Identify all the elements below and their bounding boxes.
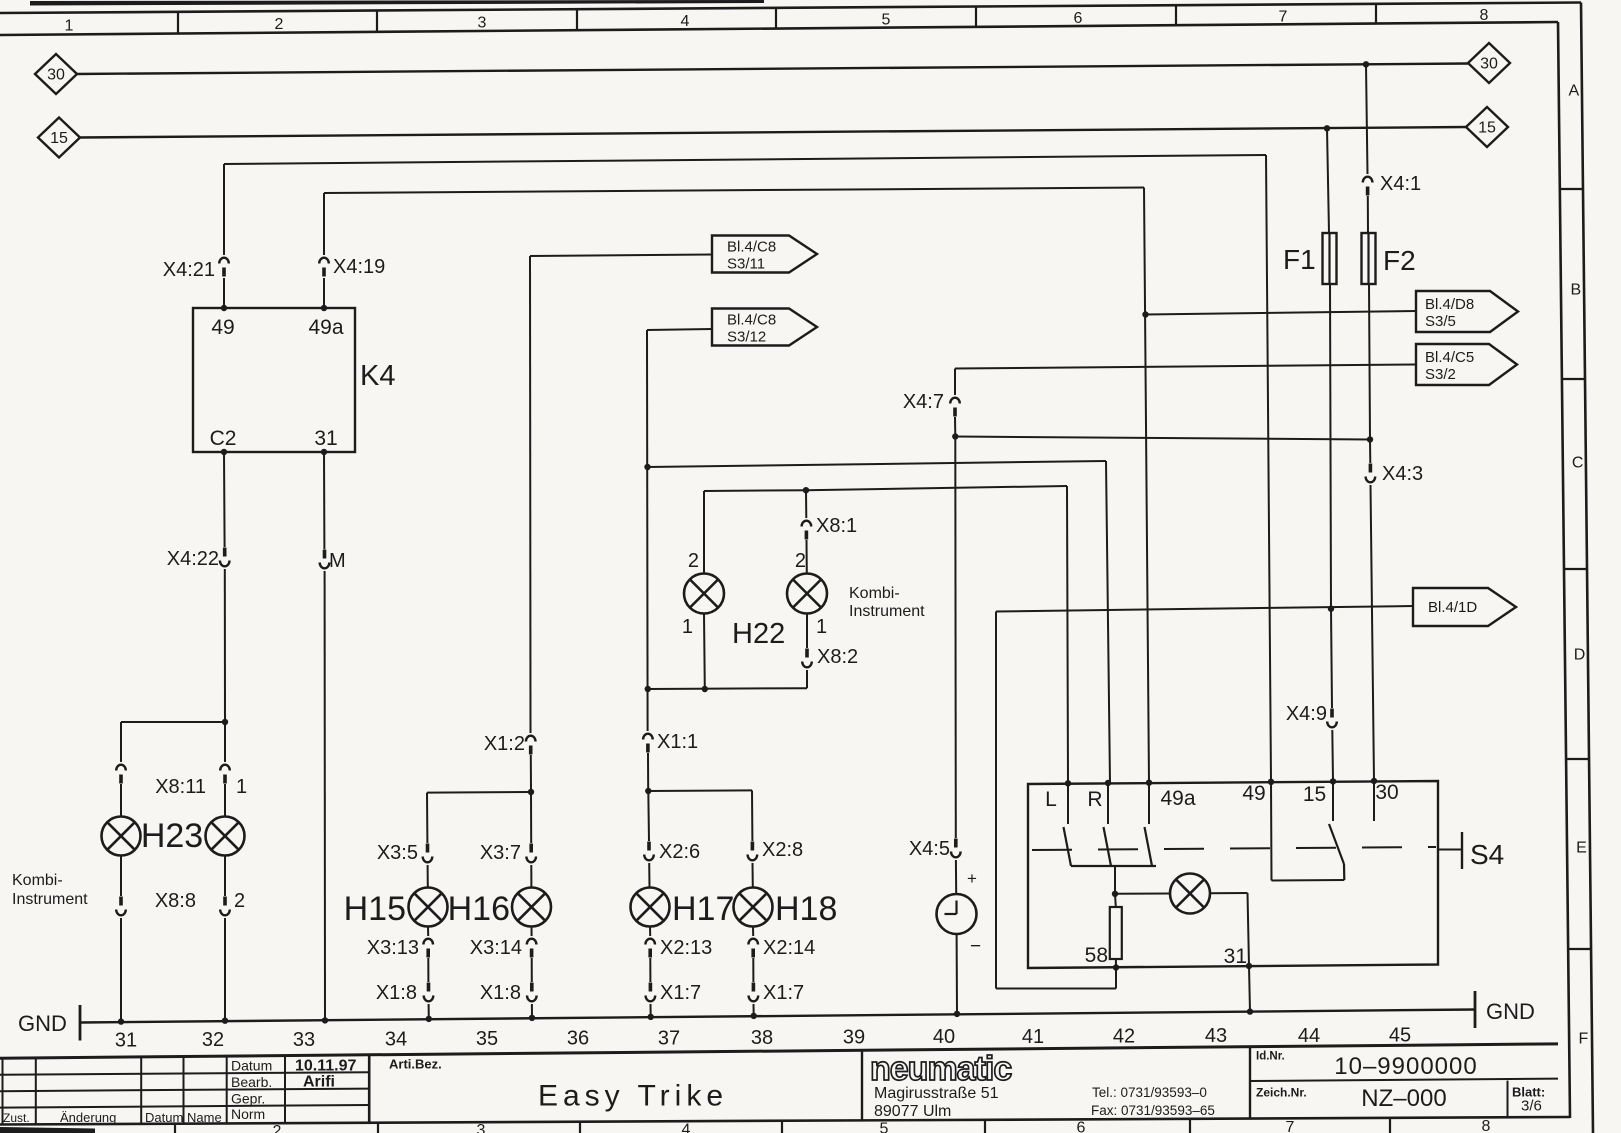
connector X8:11 bbox=[116, 765, 126, 771]
svg-text:E: E bbox=[1576, 840, 1587, 857]
fuse F2 bbox=[1367, 233, 1369, 284]
ground rail GND right terminal bbox=[1474, 991, 1477, 1028]
svg-text:X1:1: X1:1 bbox=[657, 731, 698, 753]
wire X8:2 to bottom rail bbox=[806, 670, 808, 688]
connector X4:1 bbox=[1363, 177, 1373, 183]
svg-text:3: 3 bbox=[478, 15, 487, 32]
svg-text:F: F bbox=[1578, 1031, 1588, 1048]
svg-text:X2:13: X2:13 bbox=[660, 937, 712, 959]
svg-text:1: 1 bbox=[65, 18, 74, 35]
border frame bottom ruler band bbox=[0, 1117, 1570, 1125]
svg-text:2: 2 bbox=[234, 890, 245, 912]
svg-text:X4:21: X4:21 bbox=[163, 259, 215, 281]
svg-text:Instrument: Instrument bbox=[849, 603, 925, 620]
junction S4 pin 31 bbox=[1246, 963, 1252, 969]
lamp H16 bbox=[512, 888, 551, 927]
svg-text:X3:14: X3:14 bbox=[470, 937, 522, 959]
svg-text:2: 2 bbox=[273, 1123, 282, 1133]
connector X3:14 bbox=[527, 939, 537, 945]
connector X3:5 bbox=[426, 844, 430, 853]
net 30 destination diamond (right) bbox=[1468, 43, 1510, 83]
wire X1:1 to split bbox=[647, 753, 649, 791]
border frame top ruler band bbox=[0, 3, 1581, 14]
lamp H15 bbox=[409, 888, 448, 927]
wire H22 bottom rail bbox=[648, 687, 807, 690]
connector X8:8 bbox=[119, 897, 123, 906]
junction X4:7 / W3 bbox=[952, 433, 958, 439]
svg-text:X3:13: X3:13 bbox=[367, 937, 419, 959]
lamp S4 indicator bbox=[1170, 874, 1210, 914]
svg-text:6: 6 bbox=[1074, 10, 1083, 27]
wire K4-31 down (M line) bbox=[323, 452, 325, 549]
svg-text:C2: C2 bbox=[210, 427, 237, 450]
svg-text:Bl.4/C5: Bl.4/C5 bbox=[1425, 349, 1474, 366]
wire 30-bus to X4:1 bbox=[1366, 64, 1368, 174]
junction X1:1/W4 tap bbox=[644, 464, 650, 470]
svg-text:Arifi: Arifi bbox=[303, 1074, 335, 1091]
svg-text:Bl.4/C8: Bl.4/C8 bbox=[727, 312, 776, 329]
S4 contact blade L bbox=[1064, 827, 1072, 866]
svg-text:89077 Ulm: 89077 Ulm bbox=[874, 1103, 951, 1120]
net 15 destination diamond (right) bbox=[1466, 107, 1508, 147]
ground rail bbox=[80, 1010, 1475, 1023]
connector X2:14 bbox=[748, 939, 758, 945]
connector X2:6 bbox=[647, 842, 651, 851]
lamp H18 bbox=[734, 888, 773, 927]
junction F1 line / Bl.4-1D wire bbox=[1328, 606, 1334, 612]
wire H16 branch upper bbox=[530, 792, 532, 843]
wire X8:1 drop bbox=[805, 490, 807, 518]
svg-text:34: 34 bbox=[385, 1028, 407, 1050]
lamp H22 right bbox=[787, 574, 827, 614]
wire H18 to X2:14 bbox=[752, 927, 754, 937]
svg-text:Datum: Datum bbox=[231, 1058, 272, 1074]
svg-text:X8:2: X8:2 bbox=[817, 646, 858, 668]
svg-text:Änderung: Änderung bbox=[60, 1110, 116, 1125]
svg-text:Bl.4/C8: Bl.4/C8 bbox=[727, 239, 776, 256]
svg-text:H18: H18 bbox=[775, 890, 837, 928]
junction H17 at ground rail bbox=[648, 1014, 654, 1020]
wire X1:7 to ground rail (H18) bbox=[753, 1004, 755, 1016]
svg-text:D: D bbox=[1574, 647, 1586, 664]
scan edge artifact top bbox=[30, 0, 764, 6]
svg-text:X1:8: X1:8 bbox=[480, 982, 521, 1004]
svg-text:X1:7: X1:7 bbox=[763, 982, 804, 1004]
wire net-15 bus bbox=[79, 127, 1466, 138]
svg-text:1: 1 bbox=[816, 616, 827, 638]
connector X2:13 bbox=[645, 939, 655, 945]
svg-text:7: 7 bbox=[1279, 9, 1288, 26]
svg-text:10.11.97: 10.11.97 bbox=[295, 1058, 357, 1075]
wire S4 common to lamp junction bbox=[1114, 866, 1116, 894]
net 15 source diamond (left) bbox=[38, 118, 80, 158]
svg-text:15: 15 bbox=[50, 130, 68, 147]
wire X2:8 to lamp H18 bbox=[752, 863, 754, 888]
title id row divider bbox=[1250, 1079, 1558, 1081]
svg-text:31: 31 bbox=[1224, 945, 1247, 968]
wire X1:2 to split bbox=[530, 755, 532, 792]
net 30 source diamond (left) bbox=[35, 54, 77, 94]
svg-text:F2: F2 bbox=[1383, 245, 1416, 276]
connector X1:8 (H15) bbox=[427, 983, 431, 992]
wire H23 left branch upper bbox=[120, 722, 122, 762]
junction net-30 / F2 feed bbox=[1363, 61, 1369, 67]
junction S4-31 at ground rail bbox=[1247, 1008, 1253, 1014]
junction S4 terminal R bbox=[1105, 780, 1111, 786]
svg-text:49: 49 bbox=[1242, 782, 1265, 805]
lamp H23 right bbox=[206, 817, 245, 856]
svg-text:X1:8: X1:8 bbox=[376, 982, 417, 1004]
wire X2:14 to X1:7 bbox=[752, 958, 754, 982]
svg-text:Instrument: Instrument bbox=[12, 891, 88, 908]
wire X2:6 to lamp H17 bbox=[648, 863, 650, 888]
connector X3:13 bbox=[423, 939, 433, 945]
connector X1:7 (H17) bbox=[649, 983, 653, 992]
wire X3:5 to lamp H15 bbox=[427, 865, 429, 888]
scan edge artifact bottom left bbox=[0, 1127, 95, 1133]
title blatt divider bbox=[1507, 1081, 1509, 1118]
svg-text:X2:6: X2:6 bbox=[659, 841, 700, 863]
wire W4 (X1:1 tap to S4 R) bbox=[648, 461, 1107, 467]
switch S4 box bbox=[1028, 781, 1438, 968]
wire H22 top rail / W5 start bbox=[704, 489, 806, 492]
wire K4-C2 down bbox=[223, 452, 226, 547]
svg-text:X1:2: X1:2 bbox=[484, 733, 525, 755]
wire H23 top link bbox=[121, 721, 225, 723]
wire H18 branch upper bbox=[751, 790, 753, 841]
junction M line at ground rail bbox=[322, 1017, 328, 1023]
S4 actuator tick bbox=[1461, 832, 1463, 869]
wire X3:7 to lamp H16 bbox=[530, 865, 532, 888]
svg-text:5: 5 bbox=[882, 12, 891, 29]
svg-text:30: 30 bbox=[1375, 781, 1398, 804]
svg-text:GND: GND bbox=[18, 1011, 67, 1036]
wire flag S3/2 to X4:7 corner bbox=[955, 365, 1416, 369]
svg-text:2: 2 bbox=[275, 16, 284, 33]
flag Bl.4/C8 S3/11 bbox=[712, 236, 817, 273]
junction K4 pin 49 bbox=[221, 305, 227, 311]
svg-text:1: 1 bbox=[236, 776, 247, 798]
wire H16 to X3:14 bbox=[531, 927, 533, 937]
junction W2 to flag S3/5 bbox=[1142, 311, 1148, 317]
junction H17/H18 split bbox=[645, 788, 651, 794]
junction S4 terminal 49a bbox=[1146, 780, 1152, 786]
svg-text:37: 37 bbox=[658, 1027, 680, 1049]
junction S4 terminal 30 bbox=[1371, 778, 1377, 784]
wire X4:1 to F2 bbox=[1367, 196, 1369, 233]
wire pin2 to ground rail bbox=[224, 918, 226, 1021]
wire W1 across row A (X4:21 to S4 49) bbox=[224, 155, 1266, 164]
title block neumatic divider bbox=[861, 1050, 863, 1120]
svg-text:30: 30 bbox=[1480, 56, 1498, 73]
connector H23 pin 2 bbox=[223, 897, 227, 906]
S4 pole stub 49a bbox=[1148, 783, 1150, 824]
wire net-30 bus bbox=[76, 64, 1468, 75]
flag Bl.4/D8 S3/5 bbox=[1416, 291, 1518, 332]
svg-text:43: 43 bbox=[1205, 1025, 1227, 1047]
svg-text:Bl.4/1D: Bl.4/1D bbox=[1428, 599, 1477, 616]
svg-text:49: 49 bbox=[211, 316, 234, 339]
svg-text:Kombi-: Kombi- bbox=[849, 585, 900, 602]
svg-text:41: 41 bbox=[1022, 1026, 1044, 1048]
svg-text:3/6: 3/6 bbox=[1521, 1098, 1542, 1115]
wire H22 left lamp drop bbox=[703, 491, 705, 574]
lamp H22 left bbox=[684, 574, 724, 614]
wire S4 lamp to pin 31 drop bbox=[1210, 892, 1248, 894]
svg-text:32: 32 bbox=[202, 1029, 224, 1051]
title block id divider bbox=[1249, 1047, 1251, 1119]
svg-text:31: 31 bbox=[314, 427, 337, 450]
connector X1:7 (H18) bbox=[752, 983, 756, 992]
svg-text:44: 44 bbox=[1298, 1025, 1320, 1047]
connector X4:19 bbox=[319, 258, 329, 264]
wire split to H18 branch bbox=[648, 789, 752, 792]
svg-text:Fax: 0731/93593–65: Fax: 0731/93593–65 bbox=[1091, 1103, 1215, 1118]
svg-text:H23: H23 bbox=[141, 817, 203, 855]
wire X4:7 to junction bbox=[954, 417, 956, 437]
junction S4 terminal L bbox=[1065, 780, 1071, 786]
svg-text:Datum: Datum bbox=[145, 1110, 183, 1125]
svg-text:Zeich.Nr.: Zeich.Nr. bbox=[1256, 1086, 1307, 1100]
junction H23 feed split bbox=[222, 719, 228, 725]
wire to S4 lamp bbox=[1115, 893, 1170, 895]
svg-text:H22: H22 bbox=[732, 618, 785, 650]
svg-text:X4:1: X4:1 bbox=[1380, 173, 1421, 195]
flag Bl.4/1D bbox=[1413, 588, 1516, 626]
junction H15 at ground rail bbox=[426, 1016, 432, 1022]
S4 pole stub R bbox=[1107, 783, 1109, 824]
wire X1:8 to ground rail (H16) bbox=[531, 1004, 533, 1018]
wire X1:1 riser to flag S3/12 bbox=[646, 330, 649, 731]
wire W5 to S4 L bbox=[806, 486, 1067, 490]
wire K4-49a up to corner bbox=[323, 278, 325, 308]
wire X1:2 riser to flag S3/11 bbox=[529, 256, 532, 733]
svg-text:2: 2 bbox=[795, 550, 806, 572]
connector X8:1 bbox=[802, 521, 812, 527]
clock meter U1 bbox=[937, 894, 977, 934]
svg-text:GND: GND bbox=[1486, 999, 1535, 1024]
junction net-15 / F1 feed bbox=[1324, 125, 1330, 131]
junction H23-right at ground rail bbox=[222, 1018, 228, 1024]
connector X1:1 bbox=[643, 734, 653, 740]
svg-text:Name: Name bbox=[187, 1110, 222, 1125]
S4 actuator link bbox=[1438, 849, 1462, 851]
junction H15/H16 split bbox=[528, 789, 534, 795]
wire X8:11 to lamp bbox=[120, 784, 122, 817]
S4 49 contact return bbox=[1270, 782, 1273, 881]
svg-text:Tel.: 0731/93593–0: Tel.: 0731/93593–0 bbox=[1092, 1085, 1207, 1100]
svg-text:X2:8: X2:8 bbox=[762, 839, 803, 861]
ground rail GND left terminal bbox=[79, 1005, 82, 1041]
junction X1:1/H22 bottom rail bbox=[645, 686, 651, 692]
junction K4 pin 49a bbox=[321, 305, 327, 311]
svg-text:45: 45 bbox=[1389, 1024, 1411, 1046]
svg-text:+: + bbox=[967, 869, 977, 888]
lamp H23 left bbox=[102, 817, 141, 856]
svg-text:4: 4 bbox=[681, 13, 690, 30]
svg-text:C: C bbox=[1572, 455, 1584, 472]
wire H17 branch upper bbox=[647, 791, 650, 841]
svg-text:35: 35 bbox=[476, 1028, 498, 1050]
wire K4-49 up to corner bbox=[223, 278, 225, 308]
svg-text:Kombi-: Kombi- bbox=[12, 872, 63, 889]
wire W6 to flag Bl.4/1D bbox=[996, 606, 1413, 612]
svg-text:S3/12: S3/12 bbox=[727, 329, 766, 346]
wire clock meter to ground rail bbox=[956, 934, 958, 1014]
svg-text:H17: H17 bbox=[672, 890, 734, 928]
wire W1 vertical down to S4 49 bbox=[1266, 155, 1271, 781]
flag Bl.4/C8 S3/12 bbox=[712, 309, 817, 346]
junction H16 at ground rail bbox=[529, 1015, 535, 1021]
wire F1 down to S4 15 bbox=[1330, 284, 1331, 609]
svg-text:31: 31 bbox=[115, 1029, 137, 1051]
border frame right ruler band bbox=[1558, 22, 1570, 1118]
svg-text:X4:5: X4:5 bbox=[909, 838, 950, 860]
connector H23 pin 1 bbox=[220, 765, 230, 771]
svg-text:3: 3 bbox=[477, 1122, 486, 1133]
S4 mechanical coupling dashed line bbox=[1032, 847, 1436, 850]
wire X4:5 to clock meter bbox=[955, 860, 957, 894]
junction H23-left at ground rail bbox=[118, 1018, 124, 1024]
junction clock meter at ground rail bbox=[954, 1011, 960, 1017]
svg-text:S3/2: S3/2 bbox=[1425, 366, 1456, 383]
svg-text:X8:11: X8:11 bbox=[155, 776, 206, 798]
S4 blade common bar bbox=[1071, 865, 1156, 867]
svg-text:X1:7: X1:7 bbox=[660, 982, 701, 1004]
wire tap to flag Bl.4/D8 S3/5 bbox=[1146, 311, 1417, 315]
S4 pole stub 30 bbox=[1373, 781, 1375, 821]
flag Bl.4/C5 S3/2 bbox=[1416, 344, 1517, 385]
svg-text:K4: K4 bbox=[360, 360, 395, 392]
fuse F1 bbox=[1328, 233, 1330, 284]
svg-text:8: 8 bbox=[1482, 1118, 1491, 1133]
wire X8:8 to ground rail bbox=[120, 918, 122, 1022]
connector X1:8 (H16) bbox=[530, 983, 534, 992]
svg-text:30: 30 bbox=[47, 67, 65, 84]
svg-text:Bl.4/D8: Bl.4/D8 bbox=[1425, 296, 1474, 313]
svg-text:Norm: Norm bbox=[231, 1106, 265, 1122]
svg-text:−: − bbox=[970, 936, 981, 957]
junction X8:1 tap on W5 bbox=[803, 487, 809, 493]
junction W3 at F2 line bbox=[1367, 436, 1373, 442]
wire W2 across (X4:19 to S4 49a) bbox=[324, 188, 1144, 194]
svg-text:F1: F1 bbox=[1283, 244, 1316, 275]
svg-text:49a: 49a bbox=[308, 316, 343, 339]
connector X4:3 bbox=[1369, 464, 1373, 473]
S4 contact blade R bbox=[1104, 827, 1112, 866]
svg-text:H16: H16 bbox=[448, 890, 510, 928]
svg-text:X2:14: X2:14 bbox=[763, 937, 815, 959]
svg-text:4: 4 bbox=[682, 1121, 691, 1133]
svg-text:NZ–000: NZ–000 bbox=[1361, 1085, 1446, 1112]
svg-text:Easy Trike: Easy Trike bbox=[538, 1080, 728, 1113]
svg-text:X4:22: X4:22 bbox=[167, 548, 219, 570]
connector X2:8 bbox=[751, 842, 755, 851]
connector X4:5 bbox=[954, 839, 958, 848]
svg-text:X4:19: X4:19 bbox=[333, 256, 385, 278]
wire X3:13 to X1:8 bbox=[427, 958, 429, 982]
relay K4 box bbox=[193, 308, 355, 452]
wire X1:8 to ground rail bbox=[428, 1004, 430, 1019]
svg-text:49a: 49a bbox=[1160, 787, 1195, 810]
svg-text:8: 8 bbox=[1480, 7, 1489, 24]
title block revision table grid bbox=[2, 1058, 4, 1124]
svg-text:L: L bbox=[1045, 788, 1057, 811]
junction S4 lamp/resistor node bbox=[1112, 891, 1118, 897]
junction K4 pin C2 bbox=[221, 449, 227, 455]
connector X4:7 bbox=[950, 398, 960, 404]
svg-text:S3/11: S3/11 bbox=[727, 256, 765, 273]
wire 15-bus to F1 bbox=[1327, 128, 1329, 233]
svg-text:2: 2 bbox=[688, 550, 699, 572]
wire W3 to F2 line bbox=[955, 437, 1370, 440]
junction S4 terminal 49 bbox=[1268, 779, 1274, 785]
wire X4:7 down to X4:5 bbox=[954, 437, 957, 839]
svg-text:Gepr.: Gepr. bbox=[231, 1090, 265, 1106]
title block outer top edge bbox=[0, 1044, 1558, 1058]
connector X1:2 bbox=[526, 736, 536, 742]
svg-text:5: 5 bbox=[880, 1120, 889, 1133]
connector X4:22 bbox=[223, 548, 227, 557]
svg-text:X3:5: X3:5 bbox=[377, 842, 418, 864]
svg-text:36: 36 bbox=[567, 1028, 589, 1050]
svg-text:S4: S4 bbox=[1470, 839, 1504, 870]
S4 pole stub 15 bbox=[1332, 781, 1334, 821]
svg-text:10–9900000: 10–9900000 bbox=[1334, 1053, 1477, 1080]
svg-text:Arti.Bez.: Arti.Bez. bbox=[389, 1057, 442, 1072]
resistor 58 (S4 instrument dropper) bbox=[1114, 894, 1117, 907]
wire X8:1 to H22 right lamp bbox=[806, 540, 808, 574]
svg-text:33: 33 bbox=[293, 1029, 315, 1051]
connector X4:21 bbox=[219, 258, 229, 264]
junction K4 pin 31 bbox=[321, 449, 327, 455]
svg-text:X8:8: X8:8 bbox=[155, 890, 196, 912]
svg-text:39: 39 bbox=[843, 1027, 865, 1049]
svg-text:Zust.: Zust. bbox=[3, 1111, 30, 1125]
wire 58 output loop bbox=[1115, 968, 1117, 989]
junction H18 at ground rail bbox=[751, 1013, 757, 1019]
svg-text:R: R bbox=[1087, 788, 1102, 811]
svg-text:15: 15 bbox=[1478, 120, 1496, 137]
svg-text:S3/5: S3/5 bbox=[1425, 313, 1456, 330]
svg-text:6: 6 bbox=[1077, 1120, 1086, 1133]
wire X2:13 to X1:7 bbox=[649, 958, 651, 982]
svg-text:A: A bbox=[1569, 83, 1580, 100]
S4 pole stub L bbox=[1067, 783, 1069, 824]
wire pin1 to lamp bbox=[224, 784, 226, 817]
wire H22 right lamp to X8:2 bbox=[806, 614, 808, 649]
svg-text:58: 58 bbox=[1085, 944, 1108, 967]
wire H15 branch upper bbox=[426, 793, 428, 843]
svg-text:Id.Nr.: Id.Nr. bbox=[1256, 1051, 1285, 1063]
wire H23 right branch upper bbox=[224, 722, 226, 762]
svg-text:X8:1: X8:1 bbox=[816, 515, 857, 537]
svg-text:H15: H15 bbox=[344, 890, 406, 928]
wire X3:14 to X1:8 bbox=[531, 958, 533, 982]
svg-text:1: 1 bbox=[682, 616, 693, 638]
wire W2 vertical down to S4 49a bbox=[1144, 188, 1149, 784]
junction S4 terminal 15 bbox=[1330, 778, 1336, 784]
svg-text:42: 42 bbox=[1113, 1026, 1135, 1048]
S4 contact blade 15-49 bbox=[1329, 824, 1344, 864]
wire lamp to X8:8 bbox=[120, 856, 122, 897]
wire lamp to pin 2 bbox=[224, 856, 226, 897]
svg-text:X4:7: X4:7 bbox=[903, 391, 944, 413]
svg-text:Bearb.: Bearb. bbox=[231, 1074, 272, 1090]
svg-text:X3:7: X3:7 bbox=[480, 842, 521, 864]
wire F2 down to S4 30 bbox=[1369, 284, 1370, 440]
svg-text:B: B bbox=[1571, 282, 1582, 299]
